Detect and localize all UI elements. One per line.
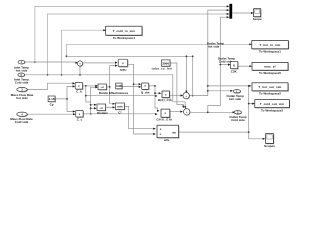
inport 4 Mass Flow Rate Cold side [10, 112, 33, 124]
svg-text:GHX_Efh: GHX_Efh [156, 118, 172, 122]
product Q_dot [141, 83, 150, 94]
wire conversion block to max_ef workspace [238, 65, 252, 67]
sum U8 [183, 92, 190, 99]
wire sum S0 bottom input [79, 67, 81, 75]
product C_c [76, 110, 84, 121]
wire C_c output to F block input 2 [83, 113, 157, 115]
wire mux to scope [232, 12, 253, 14]
svg-text:wa: wa [171, 132, 176, 135]
wire T_hot_in to mux input 1 [34, 5, 229, 63]
svg-text:÷x: ÷x [100, 106, 104, 110]
sum S0 [77, 61, 83, 67]
svg-text:C_h: C_h [76, 90, 82, 94]
wire T_cold_in to mux input 3 [47, 13, 230, 76]
svg-text:÷x: ÷x [101, 85, 105, 89]
svg-text:To Workspace1: To Workspace1 [259, 50, 281, 54]
wire effectiveness constant to product Q [122, 86, 141, 88]
wire constant 2906 down into subsystem [170, 63, 184, 108]
wire riser T_cold branch to sum output node [192, 55, 194, 96]
svg-text:hot side: hot side [16, 96, 28, 100]
to workspace4 T_cold_in_sim [106, 26, 143, 40]
function block E [158, 91, 172, 102]
svg-text:B(X)_Cth: B(X)_Cth [158, 98, 172, 102]
inport 3 Mass Flow Rate hot side [11, 87, 34, 99]
inport 2 Inlet Temp Cold side [14, 73, 29, 85]
wire divide1 output to min input 2 [106, 106, 115, 108]
svg-text:Scope1: Scope1 [264, 144, 275, 148]
svg-text:4.18: 4.18 [49, 97, 55, 101]
wire Cp constant to products [55, 85, 75, 112]
outport 1 Outlet Temp Hot side [227, 89, 244, 101]
svg-text:C_c: C_c [77, 118, 83, 122]
svg-text:min: min [117, 105, 123, 109]
wire node D to T_hot_in_sim block [66, 43, 252, 57]
wire mass flow hot to product C_h [27, 82, 75, 89]
function block F [156, 109, 172, 122]
svg-text:hot side: hot side [208, 45, 220, 49]
wire NTU output branches [128, 64, 156, 135]
svg-text:T_cold_in_sim: T_cold_in_sim [113, 29, 136, 33]
svg-text:Divide1: Divide1 [97, 111, 108, 115]
svg-text:K: K [233, 64, 235, 68]
signal label Outlet Temp hot side [207, 41, 224, 48]
divide block [98, 84, 108, 95]
to workspace2 T_hot_out_sim [252, 83, 289, 96]
NTU block [118, 59, 128, 72]
wire T_cold_in to workspace block [61, 29, 106, 76]
to workspace3 T_cold_out_sim [255, 100, 290, 113]
svg-text:Hot side: Hot side [229, 97, 241, 101]
wire inlet temp cold side [25, 74, 187, 109]
wire sum S0 output to NTU block [83, 62, 118, 64]
svg-text:Cp: Cp [50, 102, 54, 106]
wire subsystem output to scope1 riser [179, 131, 250, 133]
wire C_c output up to divide input 2 [83, 86, 98, 115]
svg-text:Effectiveness: Effectiveness [109, 91, 129, 95]
constant 2906 [152, 60, 173, 71]
to workspace5 max_ef [252, 62, 289, 75]
svg-text:tube_to_len: tube_to_len [152, 67, 173, 71]
mux [229, 4, 232, 19]
scope1 bottom right [264, 134, 275, 149]
svg-text:NTU: NTU [120, 68, 126, 72]
svg-text:Q_dot: Q_dot [141, 90, 150, 94]
scope [253, 9, 262, 22]
wire inlet temp hot side [25, 62, 78, 64]
svg-text:C2K: C2K [231, 70, 238, 74]
svg-text:Cold side: Cold side [15, 81, 29, 85]
svg-text:T_cold_out_sim: T_cold_out_sim [260, 102, 284, 106]
wire sum U8 output riser to mux input 2, outlet port, workspace [189, 9, 265, 140]
wire node D to sum U8 top input [66, 55, 192, 93]
svg-text:T_hot_in_sim: T_hot_in_sim [260, 43, 281, 47]
conversion block C2K [231, 62, 239, 74]
svg-text:0.98: 0.98 [116, 84, 122, 88]
svg-text:To Workspace3: To Workspace3 [261, 108, 283, 112]
inport 1 Inlet Temp hot side [14, 60, 29, 72]
wire C_h output to divide [83, 85, 98, 87]
wire min output down to subsystem and F block [125, 106, 156, 129]
svg-text:Scope: Scope [253, 17, 262, 21]
wire sum U9 output to outlet cold port and mux input 4 [190, 16, 235, 113]
svg-text:max_ef: max_ef [264, 65, 276, 69]
wire C_c branch to divide1 input 2 [90, 104, 97, 110]
constant Cp 4.18 [48, 96, 56, 106]
svg-text:wfa: wfa [163, 138, 169, 142]
svg-text:2906: 2906 [162, 61, 169, 65]
signal label Outlet Temp Cold side [218, 56, 235, 63]
svg-text:To Workspace5: To Workspace5 [259, 71, 281, 75]
constant effectiveness 0.98 [109, 83, 129, 95]
svg-text:T_hot_out_sim: T_hot_out_sim [259, 85, 282, 89]
wire divide output riser to NTU block and min [107, 65, 117, 105]
wire product Q output riser [149, 85, 161, 112]
svg-text:To Workspace4: To Workspace4 [113, 36, 135, 40]
wire mass flow cold to product C_c [28, 113, 76, 115]
wire C_h branch down to divide1 [85, 86, 158, 102]
svg-text:To Workspace2: To Workspace2 [259, 92, 281, 96]
to workspace1 T_hot_in_sim [252, 41, 289, 54]
svg-text:hot side: hot side [16, 69, 28, 73]
min block [115, 103, 125, 114]
wire E block to sum U8 [170, 94, 183, 96]
sum U9 [184, 109, 191, 116]
product C_h [75, 83, 83, 94]
svg-text:Cold side: Cold side [15, 120, 29, 124]
outport 2 Outlet Temp Cold side [229, 110, 246, 122]
divide1 block [97, 104, 108, 115]
svg-text:Cold side: Cold side [231, 118, 245, 122]
subsystem wfa [157, 125, 179, 142]
svg-text:Divide: Divide [99, 91, 108, 95]
wire F block to sum U9 [170, 111, 183, 113]
